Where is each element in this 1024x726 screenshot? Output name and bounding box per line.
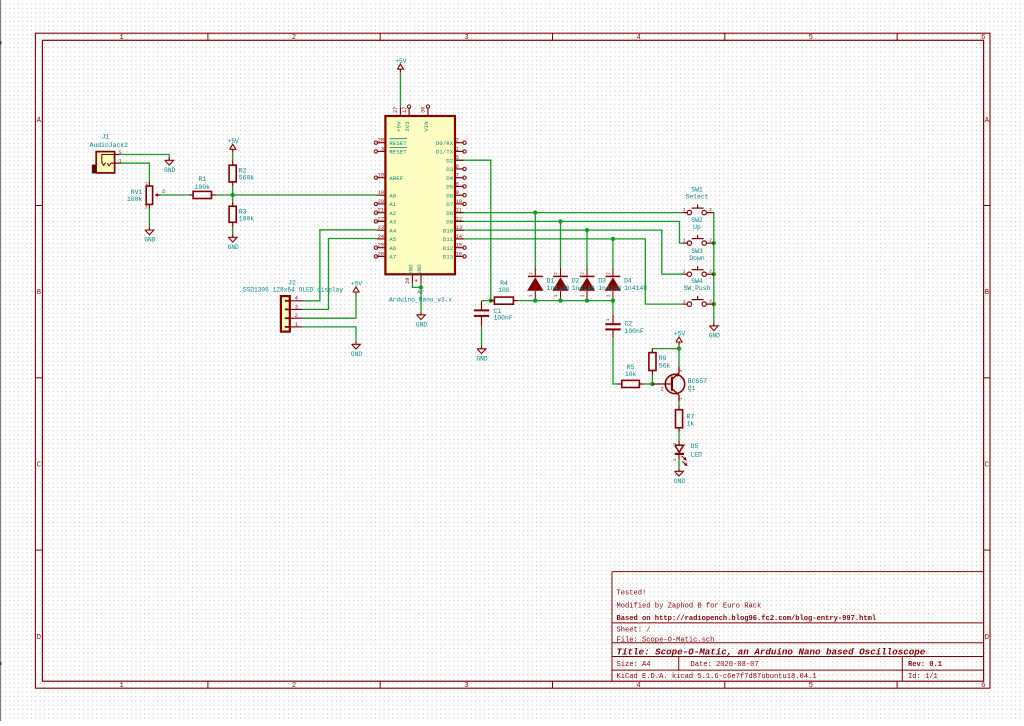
svg-text:23: 23 (378, 225, 384, 231)
svg-text:Up: Up (693, 224, 701, 231)
svg-text:A6: A6 (389, 245, 396, 252)
svg-text:Rev: 0.1: Rev: 0.1 (908, 661, 942, 669)
svg-text:17: 17 (402, 107, 408, 113)
svg-text:A7: A7 (389, 254, 396, 261)
svg-text:2: 2 (292, 34, 296, 42)
svg-text:2: 2 (660, 387, 663, 393)
svg-text:D6: D6 (446, 192, 453, 199)
svg-text:11: 11 (456, 208, 462, 214)
svg-text:24: 24 (378, 234, 384, 240)
svg-text:D2: D2 (446, 157, 453, 164)
svg-text:1n4148: 1n4148 (624, 285, 647, 292)
svg-text:16: 16 (456, 251, 462, 257)
svg-text:D5: D5 (691, 443, 699, 450)
svg-text:1: 1 (679, 397, 684, 400)
svg-text:1: 1 (146, 182, 149, 187)
svg-text:22: 22 (378, 216, 384, 222)
svg-text:19: 19 (378, 190, 384, 196)
svg-text:D9: D9 (446, 219, 453, 226)
svg-text:1: 1 (606, 294, 611, 297)
svg-text:100k: 100k (239, 215, 255, 222)
svg-text:1n4148: 1n4148 (547, 285, 570, 292)
svg-text:RESET: RESET (389, 140, 407, 147)
svg-text:5: 5 (809, 682, 813, 690)
svg-text:2: 2 (709, 300, 712, 305)
svg-text:2: 2 (709, 239, 712, 244)
svg-text:2: 2 (581, 272, 586, 275)
svg-text:A0: A0 (389, 192, 396, 199)
svg-text:Size: A4: Size: A4 (617, 661, 651, 669)
svg-text:4: 4 (636, 34, 640, 42)
svg-text:2: 2 (709, 270, 712, 275)
svg-text:D8: D8 (446, 210, 453, 217)
svg-text:15: 15 (456, 243, 462, 249)
svg-text:100k: 100k (195, 184, 211, 191)
svg-text:GND: GND (674, 478, 685, 485)
svg-text:3: 3 (464, 34, 468, 42)
svg-text:1: 1 (683, 239, 686, 244)
svg-text:14: 14 (456, 234, 462, 240)
svg-text:SSD1306 128x64 OLED display: SSD1306 128x64 OLED display (243, 287, 344, 294)
svg-text:Based on http://radiopench.blo: Based on http://radiopench.blog96.fc2.co… (617, 615, 877, 623)
svg-text:D0/RX: D0/RX (436, 140, 454, 147)
svg-text:100: 100 (498, 287, 510, 294)
svg-text:30: 30 (421, 107, 427, 113)
svg-text:SW3: SW3 (691, 248, 703, 255)
svg-text:D12: D12 (443, 245, 454, 252)
svg-text:1: 1 (119, 159, 122, 165)
svg-text:21: 21 (378, 208, 384, 214)
svg-text:GND: GND (144, 237, 155, 244)
svg-text:Id: 1/1: Id: 1/1 (908, 673, 938, 681)
svg-text:S: S (119, 150, 122, 156)
svg-text:Sheet: /: Sheet: / (617, 627, 651, 635)
svg-text:D4: D4 (624, 278, 632, 285)
svg-text:Q1: Q1 (688, 385, 696, 392)
svg-text:D11: D11 (443, 236, 454, 243)
svg-text:D: D (37, 634, 41, 642)
svg-text:1: 1 (456, 146, 459, 152)
svg-text:8: 8 (456, 181, 459, 187)
svg-text:6: 6 (456, 164, 459, 170)
svg-text:GND: GND (416, 322, 427, 329)
svg-text:C: C (985, 462, 989, 470)
svg-text:3: 3 (464, 682, 468, 690)
svg-text:1n4148: 1n4148 (572, 285, 595, 292)
svg-text:AREF: AREF (389, 175, 403, 182)
svg-text:13: 13 (456, 225, 462, 231)
svg-text:1: 1 (673, 458, 678, 461)
svg-text:A4: A4 (389, 227, 396, 234)
svg-text:27: 27 (393, 107, 399, 113)
svg-text:D3: D3 (598, 278, 606, 285)
svg-text:9: 9 (456, 190, 459, 196)
svg-text:D3: D3 (446, 166, 453, 173)
svg-text:KiCad E.D.A. kicad 5.1.6-c6e7: KiCad E.D.A. kicad 5.1.6-c6e7f7d87ubuntu… (617, 673, 817, 681)
svg-text:4: 4 (414, 279, 420, 282)
svg-text:4: 4 (636, 682, 640, 690)
svg-text:18: 18 (378, 173, 384, 179)
svg-text:Arduino_Nano_v3.x: Arduino_Nano_v3.x (389, 297, 452, 304)
svg-text:+5V: +5V (395, 58, 406, 65)
svg-text:6: 6 (981, 34, 985, 42)
svg-text:R1: R1 (198, 176, 206, 183)
svg-text:GND: GND (351, 351, 362, 358)
svg-text:3: 3 (145, 206, 148, 211)
svg-text:6: 6 (981, 682, 985, 690)
svg-text:SW2: SW2 (691, 217, 703, 224)
svg-text:1: 1 (119, 682, 123, 690)
svg-text:+5V: +5V (674, 331, 685, 338)
svg-text:R3: R3 (239, 208, 247, 215)
svg-text:A3: A3 (389, 219, 396, 226)
svg-text:D7: D7 (446, 201, 453, 208)
svg-text:2: 2 (673, 442, 678, 445)
svg-text:2: 2 (292, 682, 296, 690)
svg-text:5: 5 (809, 34, 813, 42)
svg-text:A2: A2 (389, 210, 396, 217)
svg-text:Modified by Zaphod B for Euro: Modified by Zaphod B for Euro Rack (617, 602, 762, 610)
svg-text:R2: R2 (239, 167, 247, 174)
svg-text:+5V: +5V (351, 281, 362, 288)
svg-text:SW4: SW4 (691, 278, 703, 285)
svg-text:26: 26 (378, 251, 384, 257)
svg-text:D1/TX: D1/TX (436, 149, 454, 156)
svg-text:BC557: BC557 (688, 378, 707, 385)
svg-text:2: 2 (554, 272, 559, 275)
svg-text:4: 4 (295, 296, 298, 302)
svg-text:AudioJack2: AudioJack2 (90, 142, 129, 149)
svg-text:28: 28 (378, 138, 384, 144)
svg-text:Down: Down (689, 255, 705, 262)
svg-text:J2: J2 (288, 279, 296, 286)
svg-text:RV1: RV1 (131, 189, 143, 196)
svg-text:560k: 560k (239, 175, 255, 182)
svg-text:GND: GND (709, 333, 720, 340)
svg-text:R6: R6 (659, 355, 667, 362)
svg-text:R7: R7 (687, 413, 695, 420)
svg-text:Date: 2020-08-07: Date: 2020-08-07 (691, 661, 759, 669)
svg-text:+5V: +5V (228, 138, 239, 145)
svg-text:B: B (985, 289, 989, 297)
svg-text:29: 29 (405, 278, 411, 284)
svg-text:D1: D1 (547, 278, 555, 285)
svg-text:2: 2 (456, 138, 459, 144)
svg-text:12: 12 (456, 216, 462, 222)
svg-text:25: 25 (378, 243, 384, 249)
svg-text:B: B (37, 289, 41, 297)
svg-text:1: 1 (554, 294, 559, 297)
svg-text:2: 2 (295, 313, 298, 319)
svg-text:D5: D5 (446, 184, 453, 191)
svg-text:C: C (37, 462, 41, 470)
svg-text:1: 1 (683, 208, 686, 213)
svg-text:2: 2 (529, 272, 534, 275)
svg-text:1n4148: 1n4148 (598, 285, 621, 292)
svg-text:SW1: SW1 (691, 186, 703, 193)
svg-text:20: 20 (378, 199, 384, 205)
svg-text:2: 2 (709, 208, 712, 213)
svg-text:5: 5 (456, 155, 459, 161)
svg-text:1: 1 (683, 300, 686, 305)
svg-text:10k: 10k (625, 371, 637, 378)
svg-text:LED: LED (691, 452, 703, 459)
svg-text:1: 1 (529, 294, 534, 297)
svg-text:RESET: RESET (389, 149, 407, 156)
svg-text:100nF: 100nF (625, 328, 644, 335)
svg-text:GND: GND (164, 167, 175, 174)
svg-text:100nF: 100nF (494, 315, 513, 322)
svg-text:SW_Push: SW_Push (684, 285, 711, 292)
svg-text:File: Scope-O-Matic.sch: File: Scope-O-Matic.sch (617, 637, 715, 645)
svg-text:3: 3 (295, 304, 298, 310)
svg-text:J1: J1 (102, 134, 110, 141)
svg-text:GND: GND (228, 244, 239, 251)
svg-text:D: D (985, 634, 989, 642)
svg-text:1: 1 (606, 318, 611, 321)
svg-text:2: 2 (162, 189, 165, 195)
svg-text:10: 10 (456, 199, 462, 205)
svg-text:1k: 1k (687, 420, 695, 427)
svg-text:A5: A5 (389, 236, 396, 243)
svg-text:3: 3 (679, 369, 684, 372)
svg-text:Tested!: Tested! (617, 590, 647, 598)
svg-text:VIN: VIN (423, 121, 430, 132)
svg-text:R5: R5 (627, 364, 635, 371)
svg-text:100k: 100k (127, 196, 143, 203)
svg-text:1: 1 (683, 270, 686, 275)
svg-text:GND: GND (416, 264, 423, 275)
svg-text:A1: A1 (389, 201, 396, 208)
svg-text:1: 1 (581, 294, 586, 297)
svg-text:1: 1 (295, 322, 298, 328)
svg-text:56k: 56k (659, 363, 671, 370)
svg-text:+5V: +5V (395, 121, 402, 132)
svg-text:D4: D4 (446, 175, 453, 182)
svg-text:D13: D13 (443, 254, 454, 261)
svg-text:D10: D10 (443, 227, 454, 234)
svg-text:D2: D2 (572, 278, 580, 285)
svg-text:Select: Select (685, 194, 708, 201)
svg-text:A2: A2 (417, 288, 424, 295)
svg-text:GND: GND (476, 356, 487, 363)
svg-text:C2: C2 (625, 321, 633, 328)
svg-text:3V3: 3V3 (404, 121, 411, 132)
svg-text:GND: GND (407, 264, 414, 275)
svg-text:7: 7 (456, 173, 459, 179)
svg-text:Title: Scope-O-Matic, an Ardui: Title: Scope-O-Matic, an Arduino Nano ba… (617, 647, 926, 658)
svg-text:2: 2 (606, 272, 611, 275)
svg-text:3: 3 (381, 146, 384, 152)
svg-text:1: 1 (119, 34, 123, 42)
